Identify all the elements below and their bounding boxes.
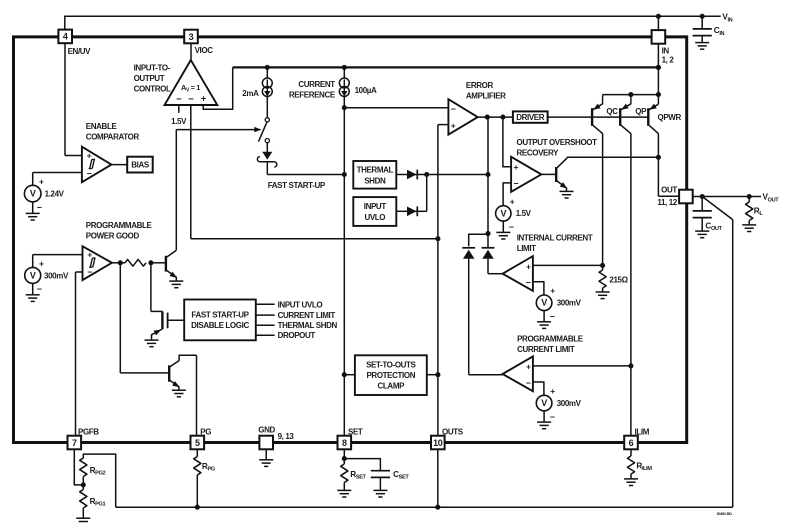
svg-text:1.5V: 1.5V	[171, 117, 187, 126]
ground 300mV prog	[543, 411, 545, 422]
svg-text:EN/UV: EN/UV	[68, 47, 92, 56]
svg-text:PROGRAMMABLE: PROGRAMMABLE	[86, 221, 153, 230]
voltage source 1.5V overshoot	[496, 206, 511, 221]
svg-text:+: +	[201, 94, 206, 104]
svg-text:4: 4	[63, 32, 68, 42]
svg-text:OUTS: OUTS	[442, 428, 464, 437]
svg-text:QP: QP	[635, 107, 647, 116]
pin OUT 11,12	[679, 190, 693, 204]
node IN-emitters	[656, 92, 661, 97]
svg-text:300mV: 300mV	[557, 299, 582, 308]
wire IN down	[657, 44, 659, 104]
wire base tie	[593, 116, 620, 118]
ground RSET	[343, 483, 345, 490]
pin 8 SET	[338, 436, 352, 450]
wire VIN to IN	[657, 16, 659, 30]
diode D3 clamp	[462, 247, 475, 249]
svg-text:BIAS: BIAS	[131, 161, 150, 170]
svg-text:5: 5	[195, 438, 200, 448]
svg-text:−: −	[87, 168, 92, 178]
wire PGFB sense	[76, 271, 83, 273]
op-amp U2 error amplifier	[448, 99, 477, 134]
node PG comp out	[118, 260, 123, 265]
node OUTS-IOC	[435, 236, 440, 241]
wire QC collector	[602, 133, 604, 265]
svg-text:GND: GND	[258, 425, 275, 434]
node after resistor	[148, 260, 153, 265]
IC block outline (bold border)	[14, 37, 687, 443]
capacitor CSET	[344, 459, 380, 470]
op-amp U5 programmable current limit	[503, 356, 533, 391]
wire internal supply rail	[233, 66, 659, 68]
wire D2 up to D1 line	[411, 210, 427, 212]
node COUT	[700, 194, 705, 199]
wire fast start-up to SET	[266, 162, 268, 175]
svg-text:+: +	[39, 258, 44, 268]
svg-text:8: 8	[342, 438, 347, 448]
transistor Q2	[168, 365, 170, 381]
svg-text:9, 13: 9, 13	[278, 432, 295, 441]
wire D1 to driver node	[411, 174, 488, 176]
svg-text:INPUT: INPUT	[364, 202, 387, 211]
switch fast start-up	[265, 118, 269, 122]
svg-text:PROTECTION: PROTECTION	[366, 371, 415, 380]
node SET external	[342, 456, 347, 461]
pin 6 ILIM	[624, 436, 638, 450]
svg-text:30451 BD: 30451 BD	[717, 511, 732, 516]
wire driver to bases	[548, 116, 592, 118]
wire U4 minus to 300mV	[533, 282, 544, 295]
wire QPWR collector to OUT	[657, 133, 659, 196]
wire SET reference vertical	[343, 108, 345, 436]
arrowhead switch control	[254, 127, 261, 132]
svg-text:PG: PG	[200, 428, 211, 437]
transistor Q1	[165, 256, 167, 272]
svg-text:SET: SET	[348, 428, 363, 437]
node OUTS-VOUT rail	[435, 505, 440, 510]
svg-text:+: +	[451, 121, 456, 131]
svg-text:OUT: OUT	[661, 185, 677, 194]
svg-text:THERMAL SHDN: THERMAL SHDN	[278, 321, 338, 330]
wire driver node vertical	[487, 117, 489, 174]
svg-text:1.5V: 1.5V	[516, 209, 532, 218]
node D1 junction	[424, 172, 429, 177]
wire switch control from Q1 collector	[176, 129, 255, 131]
node IN-rail	[656, 65, 661, 70]
ground GND pin	[265, 449, 267, 459]
capacitor COUT	[701, 197, 703, 211]
wire Q3 collector to QPWR collector	[566, 157, 568, 158]
wire 100uA to error amp minus	[344, 107, 448, 109]
svg-text:INPUT UVLO: INPUT UVLO	[278, 300, 323, 309]
comparator power good	[83, 246, 112, 280]
diode D1 thermal	[396, 174, 407, 176]
svg-text:QPWR: QPWR	[658, 113, 682, 122]
wire M1 gate	[168, 319, 185, 321]
node junction VIN-IN	[656, 14, 661, 19]
block DRIVER	[513, 111, 548, 122]
wire overshoot out	[541, 173, 555, 175]
svg-text:−: −	[87, 267, 92, 277]
block SET-TO-OUTS PROTECTION CLAMP	[355, 355, 427, 395]
transistor M1 (MOSFET)	[161, 311, 163, 329]
node QPWR-Q3	[656, 155, 661, 160]
resistor RPG2	[82, 477, 84, 485]
wire op-amp plus to rail	[203, 67, 233, 109]
wire error amp plus from OUTS	[438, 124, 449, 126]
op-amp U4 internal current limit	[503, 256, 533, 291]
resistor RPG	[196, 449, 198, 456]
voltage source 300mV internal limit	[536, 295, 552, 311]
ground RPG1	[82, 508, 84, 518]
svg-text:−: −	[550, 312, 555, 322]
voltage source 1.24V	[33, 172, 82, 174]
svg-text:−: −	[550, 412, 555, 422]
diode D2 uvlo	[396, 210, 407, 212]
node rail-2mA	[265, 65, 270, 70]
wire QP collector	[630, 133, 632, 436]
svg-text:VIOC: VIOC	[195, 46, 214, 55]
svg-text:−: −	[526, 378, 531, 388]
transistor Q3 overshoot	[555, 167, 557, 182]
node rail-100uA	[342, 65, 347, 70]
transistor QP	[630, 95, 632, 105]
svg-text:PROGRAMMABLE: PROGRAMMABLE	[517, 334, 584, 343]
voltage source 300mV power good	[33, 254, 83, 256]
svg-text:ERROR: ERROR	[466, 81, 494, 90]
node clamp top	[485, 231, 490, 236]
svg-text:CLAMP: CLAMP	[378, 381, 406, 390]
svg-text:+: +	[550, 286, 555, 296]
svg-text:+: +	[514, 162, 519, 172]
svg-text:CURRENT: CURRENT	[298, 80, 335, 89]
block THERMAL SHDN	[353, 161, 396, 189]
svg-text:CONTROL: CONTROL	[134, 84, 171, 93]
node driver pulldown	[485, 172, 490, 177]
svg-text:+: +	[526, 261, 531, 271]
svg-text:ILIM: ILIM	[635, 428, 650, 437]
block FAST START-UP DISABLE LOGIC	[184, 300, 256, 341]
ground CIN	[695, 42, 709, 44]
transistor QPWR	[649, 104, 659, 110]
svg-text:−: −	[509, 222, 514, 232]
ground M1 source	[145, 339, 159, 341]
op-amp U1 input-to-output control	[165, 60, 218, 105]
svg-text:V: V	[30, 270, 36, 280]
wire emitter bus	[603, 94, 659, 96]
wire to Q1 base	[151, 262, 165, 264]
wire EN/UV to VIN (top)	[65, 15, 721, 17]
node OUTS-clamp	[435, 372, 440, 377]
node 100uA-SET	[342, 105, 347, 110]
transistor QC	[602, 95, 604, 105]
wire clamp right	[427, 374, 438, 376]
svg-text:300mV: 300mV	[557, 399, 582, 408]
svg-text:+: +	[526, 362, 531, 372]
diode fast start-up schottky	[266, 143, 268, 152]
wire jog to left clamp diode	[469, 234, 488, 246]
wire U5 minus to 300mV	[533, 382, 544, 395]
capacitor CIN	[701, 16, 703, 28]
wire Q1 collector up	[175, 130, 177, 251]
svg-text:6: 6	[629, 438, 634, 448]
ground CSET	[373, 489, 387, 491]
pin 7 PGFB	[68, 436, 82, 450]
block INPUT UVLO	[353, 197, 396, 226]
ground 1.5V	[502, 221, 504, 232]
svg-text:UVLO: UVLO	[364, 213, 385, 222]
svg-text:COMPARATOR: COMPARATOR	[86, 132, 140, 141]
svg-text:215Ω: 215Ω	[609, 275, 628, 284]
pin 5 PG	[191, 436, 205, 450]
wire to fast start-up disable MOSFET	[150, 263, 152, 312]
wire D3 anode down	[468, 259, 470, 375]
pin 4 EN/UV	[58, 30, 72, 44]
pin 10 OUTS	[431, 436, 445, 450]
ground 1.24V	[32, 202, 34, 213]
resistor RILIM	[630, 449, 632, 456]
wire thermal shdn stub	[256, 324, 275, 326]
node junction VIN-CIN	[700, 14, 705, 19]
wire D4 anode down	[487, 259, 489, 274]
svg-text:1.24V: 1.24V	[45, 190, 65, 199]
svg-text:2mA: 2mA	[242, 89, 259, 98]
wire current limit stub	[256, 314, 275, 316]
svg-text:OUTPUT OVERSHOOT: OUTPUT OVERSHOOT	[517, 138, 598, 147]
wire clamp left	[344, 374, 355, 376]
svg-text:V: V	[541, 398, 547, 408]
svg-text:INPUT-TO-: INPUT-TO-	[134, 63, 171, 72]
current source 100uA reference	[343, 67, 345, 78]
node RL	[747, 194, 752, 199]
comparator enable	[82, 147, 112, 183]
node QC-215	[600, 263, 605, 268]
wire enable comparator out	[111, 164, 127, 166]
node PGFB divider mid	[81, 482, 86, 487]
ground COUT	[695, 230, 709, 232]
wire overshoot minus to 1.5V	[503, 183, 511, 206]
ground 215ohm	[602, 288, 604, 292]
pin GND 9,13	[259, 436, 273, 450]
svg-text:300mV: 300mV	[44, 271, 69, 280]
voltage source 300mV prog limit	[536, 395, 552, 411]
wire bottom VOUT rail	[116, 506, 733, 508]
resistor 215ohm	[602, 265, 604, 270]
wire U5 plus input	[533, 365, 631, 367]
svg-text:DROPOUT: DROPOUT	[278, 331, 316, 340]
svg-text:+: +	[39, 176, 44, 186]
node driver feed	[485, 115, 490, 120]
wire input uvlo stub	[256, 303, 275, 305]
node RPG bottom	[195, 505, 200, 510]
svg-text:THERMAL: THERMAL	[357, 166, 394, 175]
svg-text:INTERNAL CURRENT: INTERNAL CURRENT	[517, 233, 593, 242]
svg-text:100µA: 100µA	[355, 86, 377, 95]
node QP emitter	[628, 92, 633, 97]
wire Q2 collector to PG	[179, 355, 196, 361]
node QP-ILIM	[628, 363, 633, 368]
label 1.5V reference stub	[178, 105, 180, 113]
svg-text:AMPLIFIER: AMPLIFIER	[466, 92, 506, 101]
svg-text:+: +	[87, 151, 92, 161]
resistor RSET	[343, 449, 345, 464]
pin 3 VIOC	[184, 30, 198, 44]
svg-text:11, 12: 11, 12	[657, 198, 677, 207]
svg-text:QC: QC	[606, 107, 618, 116]
ground 300mV PG	[32, 283, 34, 294]
ground Q1 emitter	[175, 277, 177, 281]
svg-text:−: −	[37, 202, 42, 212]
ground Q2 emitter	[178, 386, 180, 389]
svg-text:−: −	[176, 94, 182, 105]
ground RILIM	[630, 474, 632, 478]
svg-text:−: −	[526, 278, 531, 288]
wire overshoot plus	[503, 117, 511, 167]
wire PGFB divider	[74, 449, 83, 485]
wire OUTS down	[437, 449, 439, 507]
svg-text:1, 2: 1, 2	[662, 56, 675, 65]
node overshoot feed	[500, 115, 505, 120]
wire OUT to VOUT	[693, 196, 761, 198]
wire error amp output	[478, 116, 513, 118]
resistor RL	[748, 197, 750, 203]
svg-text:V: V	[500, 208, 506, 218]
svg-text:−: −	[188, 94, 194, 105]
svg-text:V: V	[30, 189, 36, 199]
svg-text:LIMIT: LIMIT	[517, 244, 536, 253]
svg-text:OUTPUT: OUTPUT	[134, 74, 165, 83]
svg-text:FAST START-UP: FAST START-UP	[191, 310, 249, 319]
svg-text:RECOVERY: RECOVERY	[517, 148, 560, 157]
svg-text:+: +	[550, 386, 555, 396]
wire VOUT feedback down	[702, 197, 733, 220]
svg-text:SET-TO-OUTS: SET-TO-OUTS	[366, 361, 416, 370]
wire VIOC to op-amp	[190, 43, 192, 60]
svg-text:POWER GOOD: POWER GOOD	[86, 231, 140, 240]
wire EN/UV to enable comparator	[64, 43, 66, 155]
svg-text:CURRENT LIMIT: CURRENT LIMIT	[517, 345, 575, 354]
svg-text:10: 10	[433, 438, 443, 448]
svg-text:DISABLE LOGIC: DISABLE LOGIC	[191, 321, 249, 330]
svg-text:ENABLE: ENABLE	[86, 122, 118, 131]
wire to Q2 base	[119, 263, 121, 373]
svg-text:−: −	[514, 178, 519, 188]
wire op-amp minus to OUTS sense	[190, 105, 192, 239]
pin IN 1,2	[652, 30, 666, 44]
svg-text:V: V	[541, 298, 547, 308]
resistor R2 (comparator output)	[125, 259, 146, 266]
svg-text:PGFB: PGFB	[78, 428, 99, 437]
svg-text:−: −	[37, 284, 42, 294]
diode D4 clamp	[482, 247, 495, 249]
wire comparator out	[112, 262, 125, 264]
resistor RPG1	[82, 485, 84, 490]
svg-text:3: 3	[189, 32, 194, 42]
svg-text:DRIVER: DRIVER	[516, 113, 545, 122]
current source 2mA	[266, 67, 268, 78]
ground 300mV int	[543, 311, 545, 322]
ground Q3 emitter	[566, 188, 568, 191]
op-amp U3 overshoot recovery	[511, 157, 541, 192]
svg-text:CURRENT LIMIT: CURRENT LIMIT	[278, 311, 336, 320]
wire dropout stub	[256, 334, 275, 336]
node SET-faststart	[342, 172, 347, 177]
svg-text:−: −	[451, 104, 456, 114]
ground RL	[748, 221, 750, 225]
svg-text:+: +	[510, 196, 515, 206]
svg-text:REFERENCE: REFERENCE	[289, 90, 336, 99]
svg-text:IN: IN	[662, 47, 670, 56]
svg-text:+: +	[87, 250, 92, 260]
node SET-clamp	[342, 372, 347, 377]
svg-text:7: 7	[72, 438, 77, 448]
block BIAS	[127, 157, 153, 173]
wire U4 plus input	[533, 264, 603, 266]
svg-text:SHDN: SHDN	[364, 177, 386, 186]
svg-text:FAST START-UP: FAST START-UP	[268, 181, 326, 190]
node rail-IN	[656, 65, 661, 70]
